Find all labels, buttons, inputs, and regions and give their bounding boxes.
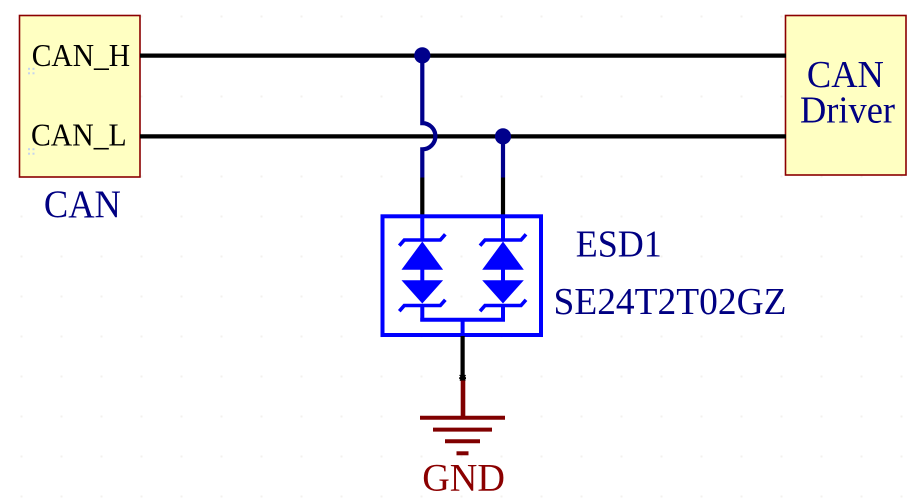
TVS left top triangle bbox=[402, 242, 444, 270]
TVS right bottom triangle bbox=[482, 280, 524, 303]
TVS left top cathode bar bbox=[399, 234, 445, 245]
wire from CAN_H node down with hop over CAN_L bbox=[422, 55, 435, 178]
TVS right lower lead bbox=[501, 306, 505, 322]
TVS left middle stub bbox=[420, 269, 424, 281]
TVS left bottom cathode bar bbox=[399, 300, 445, 311]
junction node on CAN_L bbox=[495, 128, 511, 144]
ground bar 3 bbox=[445, 439, 480, 443]
TVS left lower lead bbox=[420, 306, 424, 322]
ground stub wire bbox=[461, 381, 466, 417]
TVS right top triangle bbox=[482, 242, 524, 270]
svg-text:CAN_L: CAN_L bbox=[31, 117, 127, 153]
pin 2 of ESD1 (black stub) bbox=[501, 178, 505, 216]
TVS diode pair right: lead bbox=[501, 216, 505, 240]
TVS right bottom cathode bar bbox=[480, 300, 526, 311]
junction node on CAN_H bbox=[414, 47, 430, 63]
svg-text:ESD1: ESD1 bbox=[576, 224, 662, 266]
sheet symbol CAN bbox=[20, 16, 141, 178]
center stub to box bottom bbox=[461, 320, 465, 336]
ground bar 2 bbox=[433, 428, 492, 432]
wire CAN_H bbox=[140, 53, 786, 57]
grip dots CAN_L bbox=[28, 148, 35, 155]
ESD1 component body box bbox=[383, 216, 542, 335]
pin 3 of ESD1 (black stub to ground) bbox=[461, 336, 465, 378]
svg-text:Driver: Driver bbox=[800, 89, 895, 131]
svg-text:CAN_H: CAN_H bbox=[32, 37, 130, 73]
TVS right top cathode bar bbox=[480, 234, 526, 245]
svg-text:SE24T2T02GZ: SE24T2T02GZ bbox=[554, 281, 787, 323]
svg-text:GND: GND bbox=[422, 456, 505, 498]
sheet symbol CAN Driver bbox=[786, 16, 907, 176]
wire from CAN_L node down bbox=[501, 136, 505, 177]
TVS left bottom triangle bbox=[402, 280, 444, 303]
ground bar 1 bbox=[420, 416, 505, 420]
joining wire between diode pairs bbox=[420, 318, 505, 322]
wire CAN_L bbox=[140, 134, 786, 138]
pin end marker bbox=[459, 375, 466, 381]
pin 1 of ESD1 (black stub) bbox=[420, 178, 424, 216]
grip dots CAN_H bbox=[28, 68, 35, 75]
ground bar 4 bbox=[457, 451, 469, 455]
svg-text:CAN: CAN bbox=[44, 182, 121, 226]
TVS diode pair left: lead bbox=[420, 216, 424, 240]
TVS right middle stub bbox=[501, 269, 505, 281]
